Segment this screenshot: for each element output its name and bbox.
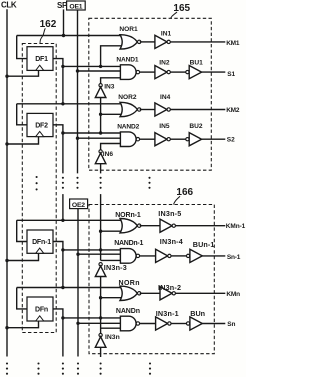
wire DF2 D-input loop: [17, 104, 27, 125]
wire IN4 to KM2 output: [170, 109, 225, 111]
svg-text:OE2: OE2: [72, 202, 85, 209]
svg-text:DFn: DFn: [35, 307, 48, 314]
junction riser / NORn-1 input: [99, 230, 102, 233]
buffer BUn: [186, 322, 189, 325]
wire DFn D-input loop: [17, 288, 27, 309]
junction IN3n-3 stem / NORn input: [99, 296, 102, 299]
svg-text:IN5: IN5: [159, 123, 170, 130]
wire OE2 to NANDn input 2: [78, 322, 121, 324]
svg-text:KMn: KMn: [226, 291, 240, 298]
wire NANDn to IN3n-1: [140, 323, 156, 325]
wire IN3n output to NANDn input 3: [101, 327, 121, 329]
ellipsis inverter column bottom: [100, 362, 102, 364]
svg-text:NANDn: NANDn: [116, 308, 140, 315]
svg-text:DFn-1: DFn-1: [32, 239, 51, 246]
svg-text:IN3n-1: IN3n-1: [156, 309, 179, 318]
gate NANDn: [120, 316, 136, 331]
ellipsis OE2 bus bottom: [77, 362, 79, 364]
node Q(n-1) wire to NORn (stage-n D net): [17, 287, 123, 289]
svg-text:NOR2: NOR2: [118, 94, 137, 101]
junction OE2/NANDn-1: [76, 253, 79, 256]
ellipsis clock branch bottom: [37, 362, 39, 364]
gate NAND1: [120, 65, 136, 80]
flip-flop DF2: [27, 113, 53, 136]
svg-text:IN4: IN4: [160, 94, 171, 101]
junction OE1/NAND1: [76, 69, 79, 72]
wire CLK to DF2 clock: [7, 137, 39, 144]
wire IN5 to BU2: [170, 138, 185, 140]
gate NANDn-1: [120, 249, 136, 264]
output-enable input OE1 (boxed label): [67, 1, 86, 10]
gate NOR2: [120, 102, 137, 116]
wire DF1 Q output: [53, 59, 63, 104]
svg-text:NORn: NORn: [119, 280, 140, 287]
wire DF1 Q to NAND1 input 1: [63, 65, 121, 67]
wire NOR2 to IN4: [140, 109, 155, 111]
wire IN3n-3 input stem: [100, 277, 102, 298]
inverter IN1: [155, 35, 167, 48]
wire riser to NOR1 input 2: [101, 46, 123, 67]
junction SP on stage-1 input wire: [62, 34, 65, 37]
wire riser to NOR2 input 2: [101, 113, 123, 115]
wire DFn Q to NANDn input 1: [63, 317, 121, 319]
svg-text:KM2: KM2: [226, 107, 240, 114]
wire IN3n-4 to BUn-1: [171, 255, 186, 257]
junction DF1 Q bus end: [61, 102, 64, 105]
svg-text:IN3n-3: IN3n-3: [104, 263, 127, 272]
svg-text:165: 165: [173, 3, 190, 14]
wire IN2 to BU1: [170, 71, 185, 73]
ellipsis OE bus continuation: [76, 177, 78, 179]
junction IN3 stem / NOR2 input: [99, 113, 102, 116]
wire DFn-1 Q to NANDn-1 input 1: [63, 249, 121, 251]
wire riser stage2: [100, 114, 102, 133]
gate NAND2: [120, 132, 136, 147]
inverter IN4: [155, 103, 167, 116]
svg-text:DF1: DF1: [35, 56, 48, 63]
wire riser to NORn-1 input 2: [101, 230, 123, 232]
gate block 165 (dashed box): [89, 18, 212, 170]
svg-text:BU1: BU1: [190, 60, 204, 67]
junction DFn Q / NANDn wire: [61, 316, 64, 319]
wire DFn Q output: [53, 309, 63, 357]
svg-text:BU2: BU2: [189, 123, 203, 130]
junction CLK/DFn clock: [5, 326, 8, 329]
wire NORn to IN3n-2: [140, 292, 160, 294]
svg-text:DF2: DF2: [35, 123, 48, 130]
inverter IN6: [99, 150, 102, 153]
svg-text:IN3n: IN3n: [105, 334, 120, 341]
ellipsis gate column bottom: [149, 362, 151, 364]
ellipsis Q bus bottom: [62, 362, 64, 364]
junction OE2/NANDn: [76, 322, 79, 325]
svg-text:IN3n-2: IN3n-2: [158, 283, 181, 292]
junction DF2 Q / NAND2 wire: [61, 131, 64, 134]
wire stem to NORn input 2: [101, 297, 123, 299]
svg-text:IN6: IN6: [103, 151, 114, 158]
svg-text:Sn-1: Sn-1: [227, 254, 241, 261]
wire DF2 Q output: [53, 125, 63, 174]
gate block 166 (dashed box): [89, 205, 214, 354]
svg-text:IN3n-4: IN3n-4: [160, 237, 183, 246]
svg-text:IN3: IN3: [104, 84, 115, 91]
inverter IN3n: [99, 333, 102, 336]
wire Q bus resume upper: [62, 194, 64, 220]
wire BU2 to S2 output: [202, 138, 226, 140]
ellipsis Q bus continuation: [62, 177, 64, 179]
junction riser stage2 base: [99, 131, 102, 134]
svg-text:IN3n-5: IN3n-5: [158, 209, 181, 218]
wire stem continuation to NANDn: [100, 298, 102, 334]
gate NORn: [120, 286, 137, 300]
junction DFn-1 Q / NANDn-1 wire: [61, 248, 64, 251]
inverter IN3n-3: [99, 263, 102, 266]
inverter IN3n-5: [160, 219, 172, 232]
svg-text:NAND2: NAND2: [117, 124, 139, 131]
wire NANDn-1 to IN3n-4: [140, 255, 156, 257]
wire IN3 output to NAND1 input 3: [101, 78, 121, 84]
junction riser / Qn-1 wire: [99, 248, 102, 251]
flip-flop DFn-1: [27, 230, 53, 253]
svg-text:S2: S2: [227, 137, 235, 144]
wire DF1 D-input loop: [17, 36, 27, 59]
svg-text:162: 162: [40, 19, 57, 30]
buffer BU1: [186, 70, 189, 73]
wire DFn-1 Q output: [53, 242, 63, 288]
inverter IN3: [99, 84, 102, 87]
junction OE1/NAND2: [76, 137, 79, 140]
wire BUn-1 to Sn-1 output: [202, 255, 225, 257]
wire CLK to DFn clock: [7, 321, 39, 328]
wire IN3n-1 to BUn: [171, 323, 186, 325]
shift-register block 162 (dashed box): [22, 44, 56, 333]
wire SP stem: [63, 9, 65, 35]
wire IN3n-3 output to NANDn-1 input 3: [101, 259, 121, 261]
svg-text:BUn-1: BUn-1: [193, 240, 215, 249]
svg-text:NOR1: NOR1: [119, 26, 138, 33]
wire IN3n-2 to KMn output: [176, 292, 226, 294]
buffer BU2: [186, 138, 189, 141]
wire IN3n input stem: [100, 347, 102, 357]
wire IN1 to KM1 output: [170, 41, 225, 43]
wire NOR1 to IN1: [140, 41, 155, 43]
buffer BUn-1: [186, 254, 189, 257]
svg-text:CLK: CLK: [1, 1, 17, 10]
junction Q(n-2) bus end: [61, 219, 64, 222]
wire CLK vertical bus: [6, 9, 8, 356]
svg-text:KM1: KM1: [226, 40, 240, 47]
wire IN6 input stem: [100, 164, 102, 174]
junction Q(n-1) bus end: [61, 286, 64, 289]
svg-text:Sn: Sn: [227, 321, 235, 328]
inverter IN3n-1: [156, 317, 168, 330]
wire NAND2 to IN5: [140, 138, 155, 140]
leader line 166: [174, 196, 181, 204]
ellipsis inverter column continuation: [100, 177, 102, 179]
wire OE2 stem: [77, 209, 79, 357]
wire IN6 output to NAND2 input 3: [101, 144, 121, 150]
gate NOR1: [120, 35, 137, 49]
inverter IN5: [155, 133, 167, 146]
junction DF1 Q / NAND1 wire: [61, 65, 64, 68]
flip-flop DFn: [27, 297, 53, 321]
svg-text:S1: S1: [227, 71, 235, 78]
inverter IN2: [155, 66, 167, 79]
junction CLK/DF2 clock: [5, 142, 8, 145]
wire CLK to DFn-1 clock: [7, 253, 39, 260]
node Q(n-2) wire to NORn-1 (stage-n-1 D net): [17, 219, 123, 221]
wire OE1 to NAND1 input 2: [78, 70, 122, 72]
ellipsis omitted flip-flops: [36, 176, 38, 178]
svg-text:IN1: IN1: [161, 31, 172, 38]
junction stem / Qn wire: [99, 316, 102, 319]
wire OE2 to NANDn-1 input 2: [78, 253, 121, 255]
wire DFn-1 D-input loop: [17, 220, 27, 241]
gate NORn-1: [120, 219, 137, 233]
junction CLK/DFn-1 clock: [5, 259, 8, 262]
node SP input wire to NOR1 (stage-1 D net): [17, 35, 123, 37]
wire BUn to Sn output: [202, 323, 225, 325]
wire OE1 to NAND2 input 2: [78, 137, 122, 139]
leader line 162: [40, 28, 45, 43]
wire riser column stage n-1: [100, 194, 102, 260]
wire NORn-1 to IN3n-5: [140, 225, 160, 227]
wire BU1 to S1 output: [202, 71, 226, 73]
wire IN3 input stem: [100, 98, 102, 115]
flip-flop DF1: [27, 47, 53, 71]
svg-text:OE1: OE1: [69, 3, 82, 10]
wire IN3n-5 to KMn-1 output: [176, 225, 226, 227]
svg-text:NAND1: NAND1: [116, 56, 138, 63]
svg-text:BUn: BUn: [190, 309, 205, 318]
junction CLK/DF1 clock: [5, 75, 8, 78]
wire OE1 stem: [77, 10, 79, 173]
wire CLK to DF1 clock: [7, 70, 39, 76]
svg-text:166: 166: [176, 187, 193, 198]
inverter IN3n-4: [156, 249, 168, 262]
svg-text:NORn-1: NORn-1: [115, 212, 141, 219]
ellipsis gate column continuation: [148, 177, 150, 179]
junction riser stage1: [99, 65, 102, 68]
wire DF2 Q to NAND2 input 1: [63, 132, 121, 134]
output-enable input OE2 (boxed label): [70, 199, 88, 209]
inverter IN3n-2: [160, 287, 172, 300]
leader line 165: [171, 12, 177, 18]
svg-text:KMn-1: KMn-1: [226, 223, 246, 230]
wire NAND1 to IN2: [140, 71, 155, 73]
svg-text:NANDn-1: NANDn-1: [114, 240, 143, 247]
svg-text:IN2: IN2: [159, 60, 170, 67]
ellipsis CLK bus bottom: [6, 362, 8, 364]
node DF1-Q wire to NOR2 (stage-2 D net): [17, 103, 123, 105]
